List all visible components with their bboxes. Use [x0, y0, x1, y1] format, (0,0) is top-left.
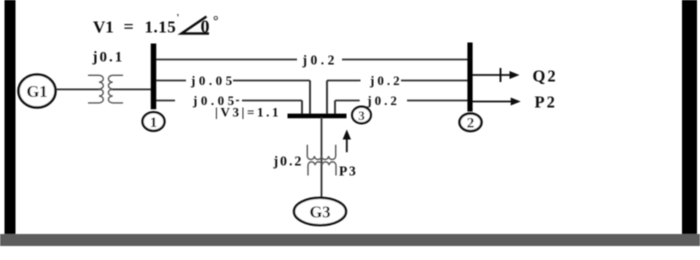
node label 3 — [352, 107, 371, 124]
P3 arrow up — [346, 136, 348, 152]
riser from line C down to bus 3 — [301, 101, 303, 116]
bus 2 — [467, 43, 472, 112]
left black border bar — [5, 0, 16, 246]
line C right: label to bus2 — [407, 100, 468, 102]
svg-text:=: = — [124, 17, 134, 37]
bus 3 — [288, 114, 347, 119]
svg-text:|V3|=1.1: |V3|=1.1 — [215, 105, 281, 120]
transformer T3 top winding — [307, 145, 335, 160]
bottom grey band — [0, 234, 700, 246]
svg-text:j0.1: j0.1 — [92, 50, 125, 66]
svg-text:2: 2 — [467, 116, 475, 132]
svg-text:Q2: Q2 — [533, 67, 558, 86]
svg-text:3: 3 — [358, 108, 365, 123]
transformer T1 left winding — [88, 75, 103, 103]
node label 2 — [460, 114, 482, 132]
angle symbol — [182, 17, 210, 34]
svg-text:G1: G1 — [26, 82, 47, 101]
svg-text:V1: V1 — [93, 18, 114, 37]
line B right: label to bus2 — [401, 80, 468, 82]
line B left: segment to riser — [233, 80, 310, 82]
line C left: segment to riser — [242, 100, 302, 102]
wire transformer T1 to bus 1 — [110, 88, 153, 90]
node label 1 — [143, 112, 165, 131]
right black border bar — [682, 0, 697, 246]
svg-text:1: 1 — [150, 115, 158, 131]
generator G1 — [19, 75, 56, 108]
generator G3 — [294, 198, 346, 225]
line B left: bus1 stub — [156, 80, 186, 82]
svg-text:': ' — [177, 13, 180, 24]
svg-text:j0.2: j0.2 — [369, 73, 403, 88]
Q2 stub arrow — [473, 74, 514, 76]
bus 1 — [151, 44, 157, 110]
line C right: riser up from bus3 — [334, 101, 336, 116]
transformer T3 bottom winding — [308, 162, 336, 176]
svg-text:j0.2: j0.2 — [366, 93, 400, 108]
line B right: segment to label — [327, 80, 361, 82]
svg-text:j0.05: j0.05 — [190, 73, 236, 88]
svg-text:j0.2: j0.2 — [302, 52, 338, 67]
svg-text:°: ° — [213, 14, 219, 29]
svg-text:G3: G3 — [309, 203, 330, 222]
Q2 tick — [500, 68, 502, 82]
line C right: segment to label — [335, 100, 360, 102]
svg-text:P2: P2 — [535, 93, 557, 112]
line B right: riser up from bus3 — [326, 81, 328, 116]
line C left: bus1 stub — [156, 100, 175, 102]
svg-text:0: 0 — [201, 17, 210, 37]
P2 stub arrow — [473, 101, 515, 103]
line A bus1 to bus2, left segment — [156, 59, 297, 61]
svg-text:1.15: 1.15 — [145, 18, 177, 37]
line A right segment — [342, 59, 468, 61]
svg-text:P3: P3 — [339, 164, 358, 179]
riser from line B down to bus 3 — [309, 81, 311, 116]
svg-text:j0.2: j0.2 — [273, 155, 304, 170]
wire G1 to transformer T1 — [56, 88, 102, 90]
stem bus3 down to G3 — [321, 117, 323, 198]
dotted tick after label — [236, 100, 239, 102]
transformer T1 right winding — [108, 75, 123, 103]
